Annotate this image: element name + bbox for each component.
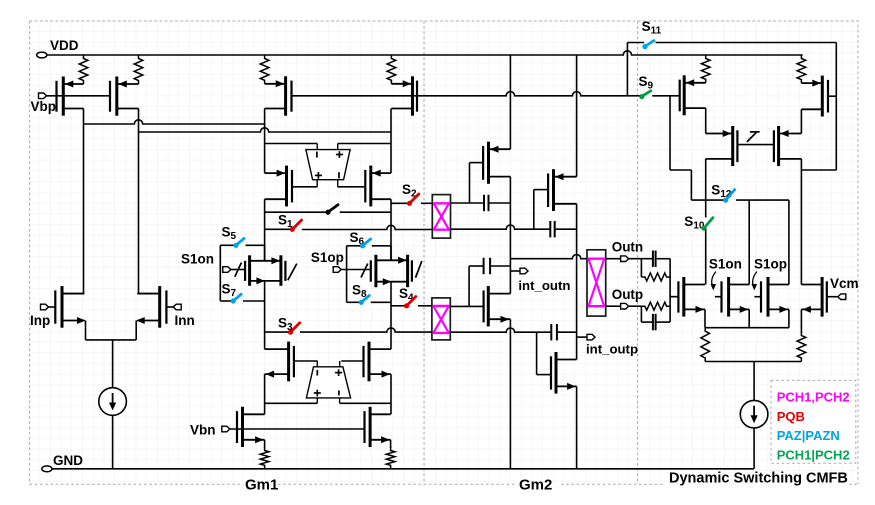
wire tgate2 bottom stub bbox=[390, 282, 392, 349]
wire RC cap low bbox=[641, 321, 670, 323]
wire nbias row left bbox=[265, 402, 318, 404]
GND rail bbox=[52, 468, 754, 470]
wire VDD drop B bbox=[576, 55, 578, 177]
wire S1 row left bbox=[265, 228, 293, 230]
wire S11 join bbox=[801, 169, 836, 171]
Outp label bbox=[612, 287, 644, 302]
wire M15 source drop bbox=[509, 319, 511, 469]
legend PCH1|PCH2 bbox=[777, 447, 850, 462]
wire RC rail left bottom bbox=[640, 306, 642, 322]
nmos M24 (CMFB Vcm) bbox=[801, 277, 826, 317]
wire node X drop bbox=[264, 199, 266, 261]
resistor R9 bbox=[701, 55, 710, 83]
wire S1op gate lead bbox=[341, 269, 371, 271]
wire Inp drain up bbox=[62, 293, 84, 295]
wire S5 row b bbox=[246, 244, 265, 246]
svg-text:S1on: S1on bbox=[709, 257, 742, 272]
Inp terminal bbox=[41, 304, 49, 310]
S10 label bbox=[684, 214, 705, 232]
wire M16 gate bbox=[537, 374, 551, 376]
capacitor C4 bbox=[551, 324, 557, 340]
S1on label bbox=[181, 252, 214, 267]
wire M23 gate stub bbox=[754, 296, 761, 298]
int_outp label bbox=[586, 342, 638, 357]
wire S1 row right bbox=[302, 225, 433, 229]
S7 label bbox=[222, 282, 237, 300]
wire M1 drain drop bbox=[83, 109, 85, 294]
Inn terminal bbox=[173, 304, 181, 310]
wire M11 source drop bbox=[264, 440, 266, 448]
S1op arrow bbox=[752, 272, 758, 291]
switch cascode short bbox=[747, 132, 760, 142]
wire S9 feedback drop bbox=[669, 96, 671, 170]
wire S9 feedback drop2 bbox=[690, 170, 692, 200]
legend PQB bbox=[777, 409, 805, 424]
wire M15 gate bbox=[450, 305, 483, 307]
wire Inn drain up bbox=[139, 293, 160, 295]
S1on arrow bbox=[711, 272, 717, 291]
nmos M9 (Gm1 ncascode left) bbox=[265, 342, 294, 382]
Vbn label bbox=[190, 423, 216, 438]
switch S9 bbox=[639, 91, 651, 99]
svg-text:PQB: PQB bbox=[777, 409, 805, 424]
wire S11 row right bbox=[656, 42, 837, 44]
Vbp label bbox=[31, 99, 57, 114]
current source I2 bbox=[740, 400, 768, 428]
wire tgate1 top stub bbox=[264, 245, 266, 260]
wire tail left bbox=[85, 321, 87, 340]
svg-text:int_outn: int_outn bbox=[518, 278, 570, 293]
wire Vbp gate bbox=[47, 95, 111, 97]
svg-text:S1on: S1on bbox=[181, 252, 214, 267]
nmos M4 input Inn bbox=[136, 286, 166, 328]
legend box bbox=[771, 380, 856, 463]
capacitor C2 bbox=[550, 221, 554, 237]
wire tgate2 top stub bbox=[390, 246, 392, 260]
Vcm label bbox=[830, 276, 859, 291]
wire M24 gate bbox=[827, 296, 838, 298]
S9 label bbox=[639, 74, 654, 92]
wire M16 gate drop bbox=[536, 332, 538, 374]
Outn terminal bbox=[621, 256, 629, 262]
wire M20 drain drop bbox=[800, 159, 802, 285]
wire M10 source drop bbox=[390, 374, 392, 414]
Vbn terminal bbox=[222, 426, 230, 432]
wire S2 row left bbox=[391, 202, 410, 204]
wire tail right bbox=[135, 321, 137, 340]
nmos M15 (Gm2 bottom n-branch) bbox=[484, 286, 511, 326]
wire S12 row right bbox=[736, 199, 789, 201]
S1op label (CMFB) bbox=[754, 257, 787, 272]
wire tail bus bbox=[86, 339, 137, 341]
wire Vbn gate line bbox=[230, 428, 365, 430]
wire folded node B bbox=[139, 128, 392, 132]
VDD rail bbox=[47, 51, 803, 55]
S1on label (CMFB) bbox=[709, 257, 742, 272]
pmos M13 (Gm2 top n-branch) bbox=[483, 142, 510, 184]
switch S8 bbox=[359, 296, 370, 305]
svg-text:Inn: Inn bbox=[175, 313, 195, 328]
S1op terminal bbox=[333, 267, 341, 273]
wire S5 row bbox=[220, 244, 235, 246]
wire node intp drop bbox=[576, 204, 578, 360]
capacitor C5 bbox=[653, 251, 656, 267]
GND label bbox=[53, 453, 83, 468]
wire Inn gate bbox=[166, 306, 173, 308]
svg-text:Inp: Inp bbox=[30, 313, 50, 328]
wire S8 row b bbox=[371, 301, 391, 303]
resistor R8 bbox=[641, 302, 670, 310]
wire T3 top drop bbox=[788, 200, 790, 284]
switch S4 bbox=[404, 297, 416, 309]
wire Outp lead bbox=[606, 305, 621, 307]
wire M22 gate stub bbox=[715, 296, 722, 298]
wire S9 gap lead bbox=[627, 95, 641, 97]
wire Outn to RC bbox=[629, 258, 671, 260]
switch PQB main bbox=[325, 205, 338, 215]
switch S3 bbox=[288, 323, 300, 335]
pmos M19 (CMFB cascode left) bbox=[706, 126, 738, 166]
wire CM sense tap bbox=[670, 296, 678, 298]
switch S1 bbox=[290, 220, 302, 232]
pmos M17 (CMFB mirror left) bbox=[680, 75, 706, 115]
wire S10 lower bbox=[705, 229, 707, 285]
wire I1 to GND bbox=[112, 415, 114, 469]
S4 label bbox=[399, 286, 414, 304]
switch S6 bbox=[360, 239, 371, 248]
resistor R6 bbox=[386, 447, 395, 469]
wire Outn lead bbox=[606, 258, 621, 260]
chopper CH1 bbox=[432, 195, 450, 239]
S5 label bbox=[222, 225, 237, 243]
wire node Y drop bbox=[390, 199, 392, 260]
wire S3 row left bbox=[265, 331, 291, 333]
resistor R2 bbox=[134, 55, 143, 84]
switch S11 bbox=[642, 41, 654, 50]
wire S7 row bbox=[220, 300, 232, 302]
Vbp terminal bbox=[39, 93, 47, 99]
int_outp terminal bbox=[587, 334, 595, 340]
wire RC rail right bbox=[669, 259, 671, 322]
wire auto-zero sense right bbox=[338, 143, 391, 145]
wire S8 row bbox=[347, 301, 361, 303]
S12 label bbox=[711, 183, 732, 201]
svg-text:PCH1|PCH2: PCH1|PCH2 bbox=[777, 447, 850, 462]
switch S2 bbox=[407, 194, 419, 206]
wire deg bus bbox=[705, 361, 801, 363]
wire M18 gate stub bbox=[828, 95, 836, 97]
wire M13 gate drop bbox=[469, 163, 471, 203]
wire M6 drain drop bbox=[390, 109, 392, 174]
Gm1 label bbox=[245, 477, 278, 494]
wire M9 gate bbox=[294, 360, 318, 362]
wire S12 row left bbox=[691, 199, 724, 201]
wire M9 source drop bbox=[264, 374, 266, 414]
wire Outp to RC bbox=[629, 305, 642, 307]
wire M8 gate bbox=[338, 186, 366, 188]
nmos M3 input Inp bbox=[55, 286, 85, 328]
wire S9 feedback jog bbox=[670, 169, 691, 171]
svg-text:Outn: Outn bbox=[612, 240, 644, 255]
S6 label bbox=[350, 230, 365, 248]
svg-text:Outp: Outp bbox=[612, 287, 644, 302]
capacitor C3 bbox=[484, 258, 491, 274]
wire M13 gate bbox=[470, 162, 484, 164]
wire chopper low out row bbox=[450, 328, 576, 332]
wire miller cap1 row bbox=[451, 202, 511, 204]
svg-text:Vbn: Vbn bbox=[190, 423, 216, 438]
wire S11 row left bbox=[627, 42, 644, 44]
svg-text:Vcm: Vcm bbox=[830, 276, 859, 291]
nmos M22 (CMFB S1on) bbox=[722, 277, 750, 317]
resistor R11 bbox=[701, 328, 710, 362]
wire S11 stub up bbox=[626, 43, 628, 96]
int_outn terminal stub bbox=[510, 270, 520, 272]
nmos M10 (Gm1 ncascode right) bbox=[364, 342, 392, 382]
S1on terminal bbox=[223, 267, 231, 273]
resistor R10 bbox=[797, 55, 806, 83]
wire quad source bus bbox=[705, 327, 789, 329]
resistor R3 bbox=[260, 55, 269, 84]
resistor R12 bbox=[797, 332, 806, 362]
wire int_outn row bbox=[510, 255, 587, 259]
svg-text:S1op: S1op bbox=[754, 257, 787, 272]
wire M10 gate bbox=[341, 360, 363, 362]
wire M15 gate rise bbox=[468, 266, 470, 306]
wire RC rail left top bbox=[640, 259, 642, 277]
wire miller cap2 row bbox=[451, 225, 577, 229]
wire S6 row b bbox=[372, 245, 391, 247]
S1 label bbox=[278, 213, 293, 231]
switch S12 bbox=[723, 190, 735, 203]
wire chop row bbox=[265, 211, 328, 213]
int_outp terminal stub bbox=[577, 336, 588, 338]
wire tail drop bbox=[112, 340, 114, 388]
wire S4 row right bbox=[418, 305, 432, 307]
wire S4 row left bbox=[391, 305, 407, 307]
chopper CH3 (output) bbox=[587, 250, 606, 316]
GND terminal bbox=[42, 466, 52, 472]
wire tgate1 bottom stub bbox=[264, 281, 266, 349]
wire S3 row right bbox=[300, 328, 432, 332]
tgate Q3/Q4 (S1op switch pair) bbox=[361, 255, 422, 287]
current source I1 bbox=[99, 388, 127, 416]
switch S7 bbox=[231, 294, 242, 303]
pmos M5 (Gm1 top left) bbox=[265, 76, 292, 115]
section separator Gm1/Gm2 bbox=[423, 21, 425, 484]
int_outn label bbox=[518, 278, 570, 293]
resistor R5 bbox=[260, 447, 269, 469]
wire cascode gate line bbox=[292, 92, 628, 96]
wire node intn drop bbox=[509, 177, 511, 294]
svg-text:Dynamic Switching CMFB: Dynamic Switching CMFB bbox=[669, 471, 848, 487]
pmos M1 (Vbp mirror left) bbox=[57, 77, 84, 116]
wire quad source drops bbox=[705, 309, 789, 327]
switch S5 bbox=[233, 239, 244, 248]
wire M21 gate bbox=[670, 296, 678, 298]
legend PAZ|PAZN bbox=[777, 428, 840, 443]
svg-text:int_outp: int_outp bbox=[586, 342, 638, 357]
bottom dashed border bbox=[30, 483, 858, 485]
legend PCH1,PCH2 bbox=[777, 390, 850, 405]
wire tail drop CMFB bbox=[753, 362, 755, 401]
S3 label bbox=[278, 316, 293, 334]
S1op label bbox=[311, 250, 344, 265]
wire T2 top drop bbox=[748, 200, 750, 284]
Outn label bbox=[612, 240, 644, 255]
wire cascode gates bbox=[737, 144, 774, 146]
pmos M8 (Gm1 cascode right) bbox=[365, 166, 391, 207]
wire M14 gate bbox=[534, 189, 548, 191]
capacitor C6 bbox=[653, 314, 656, 330]
wire folded node A bbox=[84, 120, 265, 124]
Gm2 label bbox=[519, 477, 552, 494]
switch S10 bbox=[701, 218, 713, 231]
wire M24 source drop bbox=[800, 309, 802, 333]
wire S5 bracket bbox=[219, 245, 221, 301]
wire nbias row right bbox=[340, 402, 391, 404]
capacitor C1 bbox=[484, 195, 489, 211]
svg-text:PCH1,PCH2: PCH1,PCH2 bbox=[777, 390, 850, 405]
wire S7 row b bbox=[243, 300, 265, 302]
int_outn terminal bbox=[520, 268, 528, 274]
wire miller cap3 row bbox=[469, 265, 510, 267]
svg-text:PAZ|PAZN: PAZ|PAZN bbox=[777, 428, 840, 443]
wire M19 drain drop bbox=[705, 159, 707, 218]
wire M5 drain drop bbox=[264, 109, 266, 174]
wire M7 gate bbox=[292, 186, 317, 188]
wire Inp gate bbox=[49, 306, 56, 308]
wire S6 bracket bbox=[346, 246, 348, 302]
svg-text:VDD: VDD bbox=[50, 38, 79, 53]
wire VDD drop A bbox=[509, 55, 511, 149]
nmos M16 (Gm2 bottom p-branch) bbox=[551, 352, 577, 394]
wire chop row right bbox=[340, 211, 391, 213]
svg-text:Vbp: Vbp bbox=[31, 99, 57, 114]
S2 label bbox=[402, 182, 417, 200]
op-amp A2 (auto-zero, Gm1 bottom) bbox=[306, 361, 350, 403]
wire M12 source drop bbox=[390, 440, 392, 448]
pmos M6 (Gm1 top right) bbox=[391, 76, 417, 115]
nmos M23 (CMFB S1op) bbox=[761, 277, 789, 317]
Inp label bbox=[30, 313, 50, 328]
wire S11 drop bbox=[835, 43, 837, 171]
VDD label bbox=[50, 38, 79, 53]
op-amp A1 (auto-zero, Gm1 top) bbox=[306, 144, 350, 187]
svg-text:GND: GND bbox=[53, 453, 83, 468]
chopper CH2 bbox=[432, 298, 450, 340]
nmos M21 (CMFB sense) bbox=[678, 277, 705, 317]
svg-text:S1op: S1op bbox=[311, 250, 344, 265]
Vcm terminal bbox=[838, 294, 846, 300]
Inn label bbox=[175, 313, 195, 328]
wire M18 drain drop bbox=[800, 109, 802, 133]
VDD terminal bbox=[37, 52, 47, 58]
wire M16 source drop bbox=[576, 386, 578, 468]
svg-text:Gm2: Gm2 bbox=[519, 477, 552, 494]
wire M2 drain drop bbox=[138, 109, 140, 294]
resistor R4 bbox=[387, 55, 396, 84]
resistor R1 bbox=[79, 55, 88, 84]
pmos M7 (Gm1 cascode left) bbox=[265, 166, 292, 207]
wire S2 row right bbox=[421, 202, 432, 204]
resistor R7 bbox=[641, 273, 670, 281]
pmos M14 (Gm2 top p-branch) bbox=[548, 169, 577, 211]
wire M17 drain drop bbox=[705, 108, 707, 133]
pmos M18 (CMFB mirror right) bbox=[801, 76, 828, 117]
section separator Gm2/CMFB bbox=[637, 21, 639, 484]
CMFB label bbox=[669, 471, 848, 487]
pmos M2 (Vbp mirror right) bbox=[110, 77, 139, 116]
nmos M11 (Gm1 tail left) bbox=[237, 407, 265, 447]
tgate Q1/Q2 (S1on switch pair) bbox=[235, 255, 297, 285]
wire S9 out bbox=[652, 95, 679, 97]
svg-text:Gm1: Gm1 bbox=[245, 477, 278, 494]
wire auto-zero sense left bbox=[265, 143, 318, 145]
nmos M12 (Gm1 tail right) bbox=[365, 407, 391, 447]
S8 label bbox=[352, 283, 367, 301]
Outp terminal bbox=[621, 303, 629, 309]
wire I2 to GND bbox=[753, 428, 755, 469]
pmos M20 (CMFB cascode right) bbox=[774, 126, 802, 166]
S11 label bbox=[642, 19, 662, 37]
wire S1on gate lead bbox=[231, 269, 245, 271]
wire S6 row bbox=[347, 245, 362, 247]
wire M14 gate drop bbox=[533, 190, 535, 230]
